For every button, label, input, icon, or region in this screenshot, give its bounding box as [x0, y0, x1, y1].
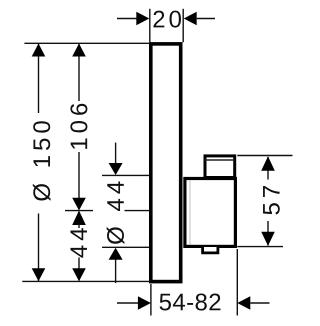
- dimension 44 (left column) line: [78, 224, 80, 228]
- dimension D44 top leader: [115, 143, 117, 164]
- dimension 54-82 extension lines: [150, 284, 152, 316]
- dimension 20 arrows: [117, 18, 137, 20]
- dimension 57 extension lines: [237, 155, 292, 157]
- extension tick handle-bottom: [102, 246, 149, 248]
- handle body: [185, 179, 236, 247]
- dimension label "Ø 150": [33, 121, 51, 201]
- handle step cap: [205, 156, 235, 178]
- dimension 57 line: [267, 157, 269, 180]
- extension line bottom-left: [22, 280, 150, 282]
- dimension label "Ø 44": [107, 182, 125, 245]
- extension tick handle-top: [102, 174, 149, 176]
- dimension 20 extension lines: [149, 9, 151, 42]
- escutcheon plate outline: [151, 44, 181, 282]
- dimension D150 line: [38, 44, 40, 114]
- handle bottom tab: [203, 247, 218, 253]
- dimension label "20": [153, 11, 181, 28]
- handle cap inner line: [205, 159, 234, 161]
- dimension label "54-82": [160, 294, 221, 311]
- dimension label "106": [70, 104, 87, 149]
- extension line junction 106-44: [65, 210, 93, 212]
- extension line top-left: [24, 42, 150, 44]
- dimension label "57": [263, 186, 280, 215]
- handle inner faint edge: [189, 181, 191, 245]
- dimension 54-82 arrows: [117, 302, 138, 304]
- dimension 106 line: [78, 44, 80, 102]
- dimension D44 bottom leader: [115, 259, 117, 283]
- junction arrows 106/44: [72, 198, 86, 211]
- dimension label "44": [70, 228, 87, 257]
